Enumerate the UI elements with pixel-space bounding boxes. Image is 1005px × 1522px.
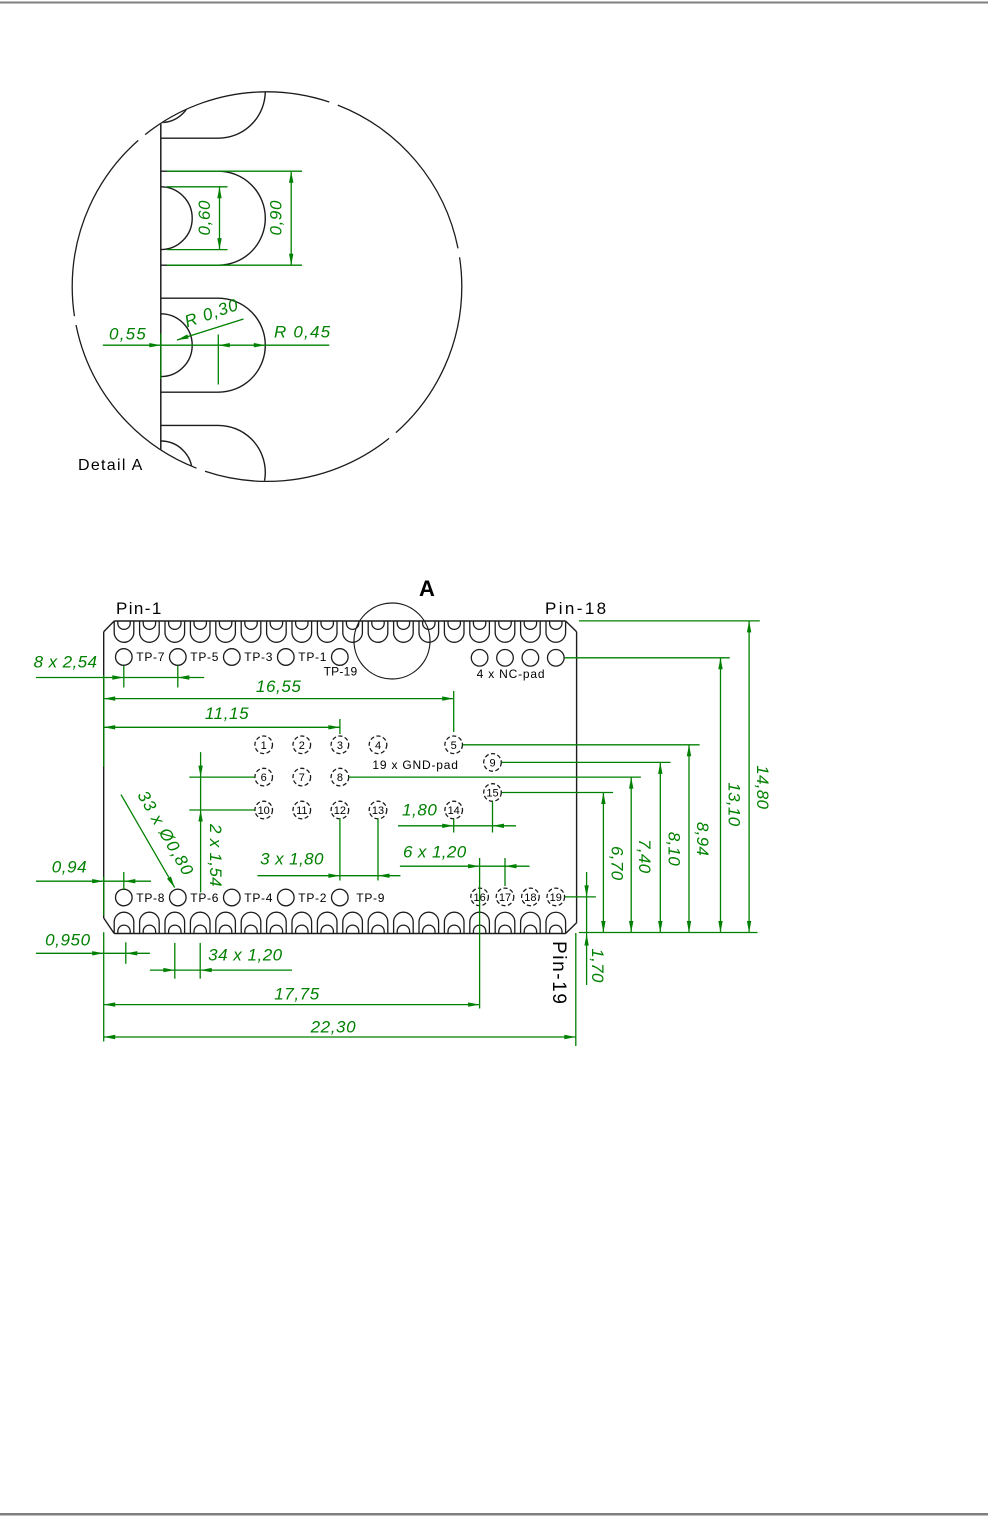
bottom castellation hole pin-30 xyxy=(270,925,282,933)
dimension 3 x 1,80 xyxy=(258,875,401,877)
svg-text:12: 12 xyxy=(334,805,346,817)
GND pad 17 xyxy=(496,888,514,906)
bottom castellation pad pin-23 xyxy=(444,912,464,933)
svg-text:9: 9 xyxy=(489,757,495,769)
bottom castellation pad pin-28 xyxy=(317,912,337,933)
GND pad 10 xyxy=(255,801,273,819)
bottom castellation pad pin-36 xyxy=(114,912,134,933)
svg-text:Pin-18: Pin-18 xyxy=(545,599,609,618)
board outline right edge xyxy=(576,632,578,923)
dimension 0,90 line xyxy=(290,171,292,265)
svg-text:1,70: 1,70 xyxy=(588,948,607,983)
castellation half-hole 2 (detail) xyxy=(161,187,192,250)
svg-text:7: 7 xyxy=(299,772,305,784)
svg-text:Pin-1: Pin-1 xyxy=(116,599,163,618)
svg-text:22,30: 22,30 xyxy=(310,1018,357,1037)
dimension 2 x 1,54 xyxy=(200,752,202,892)
svg-text:TP-9: TP-9 xyxy=(356,891,385,905)
top castellation pad pin-13 xyxy=(419,621,439,642)
svg-text:0,950: 0,950 xyxy=(45,931,91,950)
dimension 0,55 / R 0,45 line xyxy=(103,344,329,346)
bottom-right corner xyxy=(566,923,577,934)
dimension 8,94 xyxy=(688,745,690,933)
GND pad 7 xyxy=(293,768,311,786)
svg-text:2: 2 xyxy=(299,740,305,752)
svg-text:13,10: 13,10 xyxy=(725,782,744,826)
bottom castellation hole pin-35 xyxy=(143,925,155,933)
bottom castellation hole pin-19 xyxy=(550,925,562,933)
svg-text:3: 3 xyxy=(337,740,343,752)
svg-text:34 x 1,20: 34 x 1,20 xyxy=(208,946,282,965)
ext pad16 long xyxy=(479,858,481,1009)
test point TP-8 xyxy=(116,889,133,906)
svg-text:6 x 1,20: 6 x 1,20 xyxy=(403,843,467,862)
extension over edge xyxy=(160,334,162,380)
NC pad 4 xyxy=(548,650,565,667)
top castellation pad pin-14 xyxy=(444,621,464,642)
svg-text:TP-8: TP-8 xyxy=(136,891,165,905)
GND pad 16 xyxy=(471,888,489,906)
top castellation pad pin-12 xyxy=(394,621,414,642)
top castellation pad pin-17 xyxy=(521,621,541,642)
bottom castellation pad pin-33 xyxy=(190,912,210,933)
svg-text:4: 4 xyxy=(375,740,381,752)
extension overlay left edge xyxy=(103,675,105,767)
bottom castellation pad pin-29 xyxy=(292,912,312,933)
top castellation hole pin-13 xyxy=(423,621,435,629)
svg-text:19: 19 xyxy=(550,892,562,904)
top castellation hole pin-16 xyxy=(499,621,511,629)
bottom castellation pad pin-32 xyxy=(216,912,236,933)
top castellation pad pin-18 xyxy=(546,621,566,642)
board outline left edge xyxy=(103,632,105,918)
castellation pad outline 4 (detail) xyxy=(161,425,266,519)
dimension 6,70 xyxy=(602,793,604,933)
svg-text:15: 15 xyxy=(486,788,498,800)
castellation pad outline 3 (detail) xyxy=(161,298,266,392)
bottom castellation pad pin-31 xyxy=(241,912,261,933)
dimension 0,60 line xyxy=(219,187,221,250)
bottom castellation hole pin-27 xyxy=(346,925,358,933)
bottom castellation hole pin-25 xyxy=(397,925,409,933)
bottom castellation hole pin-20 xyxy=(524,925,536,933)
svg-text:0,55: 0,55 xyxy=(109,325,147,344)
svg-text:7,40: 7,40 xyxy=(635,839,654,874)
GND pad 9 xyxy=(484,754,502,772)
ext pad15 row xyxy=(502,792,613,794)
svg-text:TP-7: TP-7 xyxy=(136,650,165,664)
svg-text:TP-6: TP-6 xyxy=(190,891,219,905)
svg-text:TP-1: TP-1 xyxy=(298,650,327,664)
dimension 8,10 xyxy=(659,762,661,932)
bottom castellation hole pin-23 xyxy=(448,925,460,933)
dimension 0,60 extension lines xyxy=(167,186,228,188)
leader 33 x Ø0,80 xyxy=(121,795,175,888)
test point TP-19 xyxy=(332,649,349,666)
svg-text:18: 18 xyxy=(524,892,536,904)
bottom castellation hole pin-26 xyxy=(372,925,384,933)
svg-text:Pin-19: Pin-19 xyxy=(548,941,569,1006)
top castellation hole pin-8 xyxy=(296,621,308,629)
top castellation hole pin-9 xyxy=(321,621,333,629)
top castellation pad pin-15 xyxy=(470,621,490,642)
svg-text:6,70: 6,70 xyxy=(607,846,626,881)
dimension 1,80 xyxy=(398,825,516,827)
ext bottom edge right xyxy=(579,932,758,934)
bottom castellation pad pin-27 xyxy=(343,912,363,933)
top castellation pad pin-9 xyxy=(317,621,337,642)
dimension 0,94 xyxy=(36,880,151,882)
bottom castellation hole pin-34 xyxy=(169,925,181,933)
castellation half-hole 4 (detail) xyxy=(161,441,192,504)
svg-text:1,80: 1,80 xyxy=(402,801,438,820)
svg-text:2 x 1,54: 2 x 1,54 xyxy=(206,823,225,887)
dimension 8 x 2,54 xyxy=(36,677,204,679)
test point TP-3 xyxy=(224,649,241,666)
bottom castellation pad pin-26 xyxy=(368,912,388,933)
bottom castellation pad pin-34 xyxy=(165,912,185,933)
bottom castellation pad pin-30 xyxy=(267,912,287,933)
GND pad 15 xyxy=(484,784,502,802)
ext pad10 xyxy=(189,809,255,811)
bottom castellation hole pin-28 xyxy=(321,925,333,933)
top castellation hole pin-12 xyxy=(397,621,409,629)
top edge line xyxy=(114,620,565,622)
NC pad 3 xyxy=(522,650,539,667)
svg-text:TP-4: TP-4 xyxy=(244,891,273,905)
svg-text:4 x NC-pad: 4 x NC-pad xyxy=(477,667,546,681)
GND pad 2 xyxy=(293,736,311,754)
bottom castellation pad pin-22 xyxy=(470,912,490,933)
svg-text:Detail A: Detail A xyxy=(78,457,144,474)
top castellation pad pin-2 xyxy=(140,621,160,642)
top castellation hole pin-10 xyxy=(346,621,358,629)
bottom castellation hole pin-36 xyxy=(118,925,130,933)
ext right edge down xyxy=(575,933,577,1046)
ext TP-7 to dim xyxy=(123,666,125,671)
GND pad 3 xyxy=(331,736,349,754)
GND pad 19 xyxy=(547,888,565,906)
dimension 0,90 extension lines xyxy=(167,170,302,172)
dimension 14,80 xyxy=(748,621,750,933)
castellation pad outline 1 (detail) xyxy=(161,44,265,138)
bottom castellation pad pin-20 xyxy=(521,912,541,933)
bottom castellation hole pin-33 xyxy=(194,925,206,933)
bottom edge line xyxy=(114,933,565,935)
test point TP-9 xyxy=(332,889,349,906)
svg-text:8,10: 8,10 xyxy=(664,832,683,867)
dimension 22,30 xyxy=(104,1036,576,1038)
detail indicator circle A xyxy=(354,603,430,679)
top castellation hole pin-5 xyxy=(219,621,231,629)
GND pad 12 xyxy=(331,801,349,819)
svg-text:19 x GND-pad: 19 x GND-pad xyxy=(372,758,458,772)
ext pad5 row xyxy=(463,744,700,746)
svg-text:5: 5 xyxy=(451,740,457,752)
top castellation hole pin-4 xyxy=(194,621,206,629)
bottom castellation hole pin-31 xyxy=(245,925,257,933)
ext top edge right xyxy=(579,620,760,622)
svg-text:A: A xyxy=(419,576,435,601)
top castellation pad pin-7 xyxy=(267,621,287,642)
page footer rule xyxy=(0,1513,988,1516)
svg-text:17: 17 xyxy=(499,892,511,904)
detail view boundary circle A xyxy=(72,92,462,482)
test point TP-5 xyxy=(170,649,187,666)
top castellation pad pin-10 xyxy=(343,621,363,642)
bottom castellation pad pin-19 xyxy=(546,912,566,933)
ext NC row xyxy=(565,657,730,659)
svg-text:R 0,45: R 0,45 xyxy=(274,323,331,342)
radius leader R 0,30 xyxy=(177,319,244,340)
svg-text:16,55: 16,55 xyxy=(256,677,302,696)
bottom castellation hole pin-32 xyxy=(219,925,231,933)
svg-text:TP-19: TP-19 xyxy=(324,665,358,679)
svg-text:0,94: 0,94 xyxy=(52,858,88,877)
top castellation pad pin-6 xyxy=(241,621,261,642)
top castellation pad pin-5 xyxy=(216,621,236,642)
top castellation pad pin-11 xyxy=(368,621,388,642)
svg-text:0,90: 0,90 xyxy=(267,200,286,236)
dimension 7,40 xyxy=(630,777,632,932)
test point TP-6 xyxy=(170,889,187,906)
svg-text:TP-3: TP-3 xyxy=(244,650,273,664)
svg-text:TP-5: TP-5 xyxy=(190,650,219,664)
bottom castellation hole pin-24 xyxy=(423,925,435,933)
top castellation hole pin-14 xyxy=(448,621,460,629)
GND pad 13 xyxy=(369,801,387,819)
svg-text:8,94: 8,94 xyxy=(693,822,712,856)
NC pad 1 xyxy=(471,650,488,667)
dimension 6 x 1,20 xyxy=(400,865,530,867)
bottom-left corner xyxy=(104,918,115,934)
svg-text:10: 10 xyxy=(258,805,270,817)
GND pad 11 xyxy=(293,801,311,819)
GND pad 5 xyxy=(445,736,463,754)
GND pad 1 xyxy=(255,736,273,754)
test point TP-7 xyxy=(116,649,133,666)
svg-text:17,75: 17,75 xyxy=(274,985,320,1004)
GND pad 14 xyxy=(445,801,463,819)
GND pad 8 xyxy=(331,768,349,786)
dimension 13,10 xyxy=(720,658,722,933)
castellation half-hole 1 (detail) xyxy=(161,60,192,123)
svg-text:0,60: 0,60 xyxy=(195,200,214,236)
bottom castellation hole pin-21 xyxy=(499,925,511,933)
board edge (detail) xyxy=(160,92,162,482)
top castellation hole pin-6 xyxy=(245,621,257,629)
ext pad6 xyxy=(189,776,255,778)
castellation half-hole 3 (detail) xyxy=(161,314,192,377)
ext pad8 row xyxy=(349,776,641,778)
dimension 16,55 xyxy=(104,698,454,700)
dimension 17,75 xyxy=(104,1004,480,1006)
top castellation hole pin-11 xyxy=(372,621,384,629)
top castellation hole pin-18 xyxy=(550,621,562,629)
top castellation pad pin-3 xyxy=(165,621,185,642)
castellation pad outline 2 (detail) xyxy=(161,171,266,265)
bottom castellation pad pin-24 xyxy=(419,912,439,933)
GND pad 18 xyxy=(522,888,540,906)
top castellation hole pin-7 xyxy=(270,621,282,629)
page header rule xyxy=(0,2,988,4)
top castellation pad pin-1 xyxy=(114,621,134,642)
ext pad19 row xyxy=(565,896,596,898)
top castellation hole pin-1 xyxy=(118,621,130,629)
svg-text:3 x 1,80: 3 x 1,80 xyxy=(260,850,324,869)
svg-text:8: 8 xyxy=(337,772,343,784)
svg-text:11,15: 11,15 xyxy=(205,704,249,723)
bottom castellation pad pin-21 xyxy=(495,912,515,933)
GND pad 6 xyxy=(255,768,273,786)
svg-text:14,80: 14,80 xyxy=(753,765,772,809)
NC pad 2 xyxy=(497,650,514,667)
top castellation pad pin-8 xyxy=(292,621,312,642)
svg-text:11: 11 xyxy=(296,805,307,817)
top castellation pad pin-4 xyxy=(190,621,210,642)
bottom castellation pad pin-25 xyxy=(394,912,414,933)
ext pad9 row xyxy=(502,761,671,763)
svg-text:14: 14 xyxy=(448,805,460,817)
dimension 1,70 xyxy=(586,872,588,985)
bottom castellation hole pin-29 xyxy=(296,925,308,933)
GND pad 4 xyxy=(369,736,387,754)
svg-text:6: 6 xyxy=(261,772,267,784)
svg-text:8 x 2,54: 8 x 2,54 xyxy=(34,653,98,672)
top castellation hole pin-3 xyxy=(169,621,181,629)
top castellation pad pin-16 xyxy=(495,621,515,642)
svg-text:TP-2: TP-2 xyxy=(298,891,327,905)
test point TP-1 xyxy=(278,649,295,666)
svg-text:13: 13 xyxy=(372,805,384,817)
test point TP-2 xyxy=(278,889,295,906)
bottom castellation hole pin-22 xyxy=(473,925,485,933)
dimension 11,15 xyxy=(104,726,340,728)
top-left corner xyxy=(104,621,115,632)
top-right corner xyxy=(566,621,577,632)
dimension 34 x 1,20 xyxy=(150,969,292,971)
top castellation hole pin-15 xyxy=(473,621,485,629)
bottom castellation pad pin-35 xyxy=(140,912,160,933)
top castellation hole pin-17 xyxy=(524,621,536,629)
test point TP-4 xyxy=(224,889,241,906)
dimension 0,950 xyxy=(36,952,150,954)
centre tick of pad arc xyxy=(217,335,219,385)
top castellation hole pin-2 xyxy=(143,621,155,629)
svg-text:1: 1 xyxy=(261,740,267,752)
